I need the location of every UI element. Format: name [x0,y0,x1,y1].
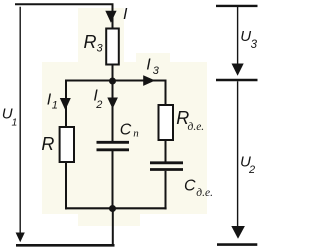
highlight panel I3 label [136,53,170,62]
label I3 [146,56,160,77]
label U1 [2,106,18,129]
terminal bar middle right [216,79,258,82]
label I [123,6,128,23]
svg-text:C: C [120,122,132,139]
capacitor Cde [150,163,183,170]
label R [41,134,54,154]
svg-text:C: C [184,178,196,195]
node junction bottom [109,205,116,212]
current arrow I3 [143,75,155,86]
svg-text:2: 2 [248,164,255,176]
label I1 [47,92,58,112]
svg-text:2: 2 [95,99,102,111]
wire right branch lower [165,171,167,210]
wire right branch upper [165,80,167,105]
resistor Rde [159,105,174,140]
terminal bar top right [216,5,258,7]
highlight panel bottom tab [78,214,140,226]
wire R3 top lead [112,4,114,29]
label Cp [120,122,139,140]
arrowhead U3 [232,64,244,76]
resistor R3 [106,29,119,65]
svg-text:R: R [41,134,54,154]
svg-text:U: U [240,28,251,45]
svg-text:3: 3 [251,39,258,51]
svg-text:3: 3 [153,65,160,77]
svg-text:I: I [146,56,151,73]
label U3 [240,28,257,51]
wire bottom row [65,207,167,209]
svg-text:1: 1 [12,117,18,129]
wire R3 bottom lead [112,66,114,82]
label Rde [176,108,204,133]
label I2 [93,88,102,111]
svg-text:д.е.: д.е. [196,187,213,199]
voltage line U2 [237,81,239,227]
svg-text:3: 3 [97,43,104,55]
highlight panel around R3 [78,8,124,64]
wire top bus [15,3,114,5]
wire junction row [65,80,166,82]
arrowhead U1 [16,233,25,243]
capacitor Cp [97,142,130,150]
wire middle branch upper [112,81,114,141]
wire middle branch lower [112,151,114,208]
terminal bar bottom right [217,243,257,246]
wire left branch upper [65,80,67,127]
svg-text:п: п [133,128,139,140]
arrowhead U2 [231,226,245,239]
wire left branch lower [65,163,67,209]
wire bottom bus [16,244,115,247]
current arrow I [105,11,116,23]
wire bottom drop [112,209,114,246]
svg-text:R: R [84,32,97,52]
current arrow I2 [107,98,118,109]
svg-text:1: 1 [52,100,58,112]
wire right branch middle lead [165,141,167,162]
voltage line U1 [19,7,21,234]
voltage line U3 [237,7,239,65]
current arrow I1 [60,98,71,110]
label U2 [240,153,255,176]
node junction top [109,78,116,85]
label Cde [184,178,213,200]
svg-text:I: I [123,6,128,23]
label R3 [84,32,104,55]
svg-text:д.е.: д.е. [188,121,205,133]
resistor R [60,127,74,162]
highlight panel main circuit [42,62,207,214]
